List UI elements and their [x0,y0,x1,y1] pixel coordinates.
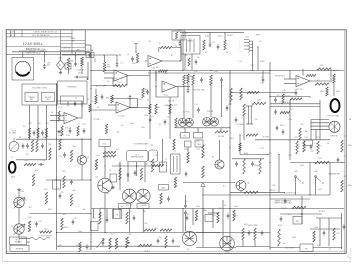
resistor R78 [315,161,329,163]
speaker LS1 body [15,61,30,76]
resistor R90 [99,212,101,224]
svg-text:22u: 22u [116,149,119,151]
svg-text:PINS: PINS [256,35,260,37]
capacitor C26 [22,143,25,148]
capacitor C59b [284,198,287,203]
junction dot 27 [269,208,270,209]
svg-text:TO REVERB TANK: TO REVERB TANK [134,143,149,146]
junction dot 31 [341,162,342,163]
wire bottom bus right [236,246,270,248]
svg-text:R100: R100 [234,206,238,208]
wire B+ rail [91,70,344,72]
svg-text:R23: R23 [151,116,154,118]
svg-text:Q3: Q3 [87,157,89,159]
supply arrow symbol [134,44,137,48]
wire ic3 drop c [136,162,138,176]
wire top joint [90,54,117,56]
wire y214 rail [280,213,322,215]
svg-text:R90: R90 [101,208,104,210]
junction dot 22 [90,213,91,214]
junction dot 14 [56,139,57,140]
svg-text:C42: C42 [311,151,314,153]
svg-text:C41: C41 [269,153,272,155]
wire tone drop1 [95,89,97,96]
resistor R71 [155,104,157,114]
svg-text:ECC83: ECC83 [126,205,132,207]
svg-text:R2: R2 [205,52,207,54]
wire mid x223 drop2 [222,234,224,247]
capacitor C23 [282,129,285,134]
svg-text:R16: R16 [29,123,32,125]
svg-text:R72: R72 [197,141,200,143]
svg-text:V3b: V3b [143,211,146,213]
wire ic3 drop b [127,162,129,182]
svg-text:R99: R99 [219,208,222,210]
junction dot 9 [210,70,211,71]
svg-text:R74a: R74a [254,165,258,167]
junction dot 2 [119,54,120,55]
transistor Q1 arrow [14,198,26,209]
relay box RL1 [99,140,111,147]
wire bridge top [60,52,62,60]
resistor R1 in jack [175,32,177,39]
wire R61 down [81,66,83,74]
title block row line 2 [6,36,72,38]
capacitor C41a [235,161,238,166]
resistor R98 [195,210,197,221]
page bottom edge shadow [2,261,351,263]
potentiometer VR5 body [126,237,129,248]
wire mid bus b [162,139,164,166]
svg-text:VR5: VR5 [128,234,131,236]
svg-text:C10: C10 [144,89,147,91]
svg-text:C32: C32 [39,221,42,223]
ground G7 [57,130,61,133]
svg-text:~ MAINS 240V AC 50Hz: ~ MAINS 240V AC 50Hz [24,48,46,51]
wire x170 vert [169,97,171,139]
wire rb bus3 [313,247,342,249]
wire bottom drop 5 [119,209,121,219]
wire tone bus [91,85,120,87]
svg-text:TIP41: TIP41 [105,193,109,195]
wire spk link 4 [311,128,329,130]
svg-text:0V1: 0V1 [117,132,120,134]
svg-text:OP: OP [309,97,311,99]
wire IC3a in [284,78,296,80]
svg-text:R20: R20 [165,73,168,75]
wire bottom bus 2 [57,245,180,247]
resistor R54 [28,221,30,232]
wire top mid rail [180,31,238,33]
junction dot 25 [202,232,203,233]
wire psu under b [191,54,193,70]
page corner shadow [347,256,351,260]
capacitor C59 [280,216,283,221]
svg-text:CT: CT [109,251,111,253]
svg-text:R31 10R: R31 10R [218,136,225,138]
wire E vert [289,71,291,80]
capacitor C19 [262,77,265,82]
wire psu under a [184,54,186,70]
capacitor C27 [26,143,29,148]
svg-text:LS1: LS1 [21,62,24,64]
resistor R76 [303,141,305,152]
svg-text:SEC 2: SEC 2 [218,36,223,38]
wire jack down [180,46,182,61]
title block right column row 3 [61,46,86,48]
wire Q2 out [18,234,20,238]
wire Q5 up [219,140,221,160]
svg-text:C6: C6 [87,99,89,101]
resistor R49 [160,193,162,204]
svg-text:R106: R106 [292,237,296,239]
svg-text:10R 5W: 10R 5W [269,190,275,192]
svg-text:R47: R47 [301,124,304,126]
svg-text:HT 285V: HT 285V [319,211,326,213]
svg-text:C53: C53 [159,237,162,239]
svg-text:R5: R5 [103,55,105,57]
wire V4 top [185,195,187,204]
resistor R12 [89,104,91,112]
effects panel inner box [61,96,84,104]
svg-text:R97: R97 [167,232,170,234]
svg-text:R76: R76 [305,137,308,139]
diode D1 [209,43,211,47]
title block col line a [10,30,12,37]
svg-text:B1: B1 [223,186,225,188]
wire right vert c [319,100,321,140]
ic3 rounded box 2 [149,150,158,162]
wire right band 3 [270,198,310,200]
potentiometer VR5 wiper [128,242,130,244]
resistor R92 [144,229,156,231]
effects panel box [58,81,88,104]
svg-text:R37: R37 [119,164,122,166]
svg-text:R54: R54 [29,217,32,219]
middle pot box [42,93,55,102]
capacitor C20 [274,97,277,102]
resistor R91 [126,212,128,224]
junction heavy A [87,78,89,80]
svg-text:C59: C59 [288,214,291,216]
svg-text:R13: R13 [59,107,62,109]
tube V1a [178,118,186,126]
capacitor C10b [33,130,36,135]
wire rb vert [341,213,343,249]
svg-text:C45: C45 [327,143,330,145]
wire col x68 [67,101,69,106]
wire R32 stub [243,116,245,140]
capacitor C29 [38,163,43,166]
wire x203 bottom [202,209,204,248]
box bottom d [293,217,302,225]
junction dot 30 [269,162,270,163]
svg-text:SMOOTHING: SMOOTHING [248,225,259,227]
svg-text:C21a: C21a [288,119,292,121]
svg-text:CN1: CN1 [245,37,248,39]
wire x88 drop [87,62,89,79]
footswitch label box 2 [10,245,29,251]
junction dot 13 [90,139,91,140]
wire cap C30 drop [44,52,46,63]
svg-text:R80: R80 [344,176,347,178]
svg-text:R64a: R64a [64,227,68,229]
wire x188 stub [187,148,189,153]
title block outline [6,30,85,55]
resistor R15 [95,95,97,104]
svg-text:R40: R40 [321,65,324,67]
wire Q1 down [18,208,20,224]
title block col line b [14,30,16,37]
tube V5 [220,236,235,251]
capacitor C10c [41,130,44,135]
title block col line d [60,30,62,55]
svg-text:R29: R29 [241,96,244,98]
diode D5 [127,173,129,177]
wire mid y213 [208,212,218,214]
resistor R21a [61,126,63,136]
resistor R74c [243,159,245,174]
svg-text:R98: R98 [197,206,200,208]
svg-text:C40a: C40a [141,127,145,129]
wire IC1a out [128,75,150,77]
wire IC1a in+ [104,72,114,74]
capacitor C15 [220,77,223,82]
svg-text:R80a: R80a [348,185,352,187]
component box right [304,140,313,146]
wire y218 loop [316,217,342,219]
resistor R38 [140,168,142,180]
wire fb left [112,78,114,86]
capacitor C50 [106,217,109,222]
resistor R30 [252,102,266,104]
drawing frame outer [6,30,346,254]
svg-text:R103: R103 [278,225,282,227]
wire V4 up [185,215,187,232]
transformer T2 box [171,154,181,174]
junction dot 15 [29,139,30,140]
wire IC2b out [176,86,190,88]
wire r22 chain [187,83,189,89]
ground G1 [59,71,63,74]
wire bt drop c [202,209,204,233]
resistor R99 [217,212,219,223]
resistor R35 [95,159,97,170]
transformer T3 winding b [250,106,252,124]
wire bottom 247 mid [196,247,236,249]
resistor R25 [183,75,186,85]
svg-text:IC1a: IC1a [117,82,121,84]
svg-text:R41a: R41a [320,91,324,93]
wire B+ rail lower [148,72,270,74]
wire x320 loop [319,218,321,246]
svg-text:R79: R79 [344,136,347,138]
resistor R45 [280,111,290,113]
svg-text:PRESENCE: PRESENCE [67,87,77,89]
cathode resistor box Rk1 [181,133,190,139]
resistor R80 [341,180,343,192]
transistor Q6 [236,181,246,191]
resistor R93 [160,229,172,231]
resistor R65 [40,231,52,233]
resistor R74b [239,143,241,151]
wire fb right [126,76,128,86]
tube V3 base box [119,204,131,209]
junction dot 42 [56,104,57,105]
svg-text:R53a: R53a [20,191,24,193]
wire cap to dot [80,76,89,78]
wire IC4a in2 [50,120,64,122]
resistor R39 [151,159,153,172]
svg-text:R57: R57 [59,135,62,137]
svg-text:R64: R64 [63,214,66,216]
svg-text:R56: R56 [49,144,52,146]
connector CN1 arcs [244,40,250,53]
title block col line f [84,30,86,55]
resistor R70 [149,104,151,114]
svg-text:R19: R19 [139,99,142,101]
junction dot 34 [309,194,310,195]
resistor R100 [233,210,235,221]
wire fbE right [330,69,332,82]
capacitor C4b bars [131,56,134,61]
wire Q4 down [104,193,106,232]
capacitor C57 [248,230,251,235]
connector CN1 pins [250,41,253,51]
junction x279 [278,154,279,155]
box bottom b [113,210,122,219]
capacitor C60 [343,224,346,229]
wire out drop2 [192,85,194,118]
svg-text:100n: 100n [76,245,80,247]
svg-text:R98a: R98a [203,210,207,212]
transistor Q5 [215,160,224,169]
resistor R52 [24,163,36,165]
ic3 rounded box [127,150,149,162]
junction dot 5 [155,86,156,87]
wire IC2a in upper [108,104,116,106]
capacitor C14 [200,77,203,82]
svg-text:R33: R33 [97,155,100,157]
transistor Q3 [77,155,86,164]
svg-text:R6: R6 [119,87,121,89]
svg-text:R63: R63 [73,190,76,192]
speaker LS2 cross [331,121,339,132]
svg-text:R60: R60 [70,61,73,63]
title block title underline [6,45,60,47]
wire q5 bus [183,182,235,184]
title block row line 1 [6,32,72,34]
svg-text:R78a: R78a [300,165,304,167]
capacitor C53 [157,238,160,243]
resistor R13 [58,111,60,121]
svg-text:47n: 47n [47,65,50,67]
capacitor C54 [172,238,175,243]
resistor R34 [103,155,116,157]
tube V4 [182,231,196,245]
capacitor C42 [310,144,313,149]
svg-text:IC 1/2B: IC 1/2B [118,116,125,118]
small box mid [159,185,169,191]
resistor R101 [242,228,244,240]
svg-text:R25 R26 100K: R25 R26 100K [193,90,205,92]
resistor R107 [333,228,335,240]
capacitor C35 [59,193,62,198]
resistor R6 feedback [113,84,127,86]
resistor R2b [188,58,190,66]
resistor R77 [317,141,319,154]
wire left bus a [16,159,46,161]
wire fuse link [62,54,90,56]
resistor R56 [49,148,51,160]
input jack box J1 [172,31,185,40]
wire bias vert x240 [239,134,241,155]
capacitor C4 [179,41,182,46]
wire x279 drop [278,155,280,193]
wire V3a drop [128,209,130,233]
svg-text:C2: C2 [117,55,119,57]
wire IC2a in lower [91,109,116,111]
junction dot 29 [18,241,19,242]
svg-text:C26: C26 [26,154,29,156]
wire Q3 up [81,139,83,156]
wire IC1a in- [104,77,114,79]
resistor R79 [341,140,343,152]
svg-text:MAINS: MAINS [187,40,193,43]
resistor R48 [173,139,175,150]
svg-text:12 AX 30ELL: 12 AX 30ELL [23,42,43,46]
capacitor C66 [323,230,326,235]
junction dot 36 [202,208,203,209]
resistor R50b [174,177,176,188]
resistor R28 [230,88,233,102]
junction dot 3 [145,60,146,61]
capacitor C8 [101,94,104,99]
junction dot 16 [104,165,105,166]
svg-text:Q6: Q6 [247,183,249,185]
capacitor C44 [295,90,298,95]
svg-text:EARTH SOLDER TAG: EARTH SOLDER TAG [275,202,293,205]
wire cath drop2 [197,128,199,133]
svg-text:J2: J2 [165,159,167,161]
ground G6 triangle [201,183,205,187]
resistor R40 [317,68,331,70]
svg-text:REVERB: REVERB [16,249,24,251]
junction dot 33 [269,139,270,140]
svg-text:HT SEC: HT SEC [144,251,151,253]
capacitor C38 [167,196,170,201]
svg-text:0-240: 0-240 [205,36,209,38]
svg-text:SW2: SW2 [294,171,298,173]
wire spk link 3 [311,125,329,127]
output transformer ellipse [331,99,340,112]
fuse F1 element [89,53,91,57]
tube V2b [210,118,219,127]
transformer T2 winding b [176,156,178,172]
transistor Q2 [14,224,24,234]
wire mid bus a [149,71,151,140]
wire right vert b [289,100,291,160]
junction dot 4 [179,60,180,61]
svg-text:R14: R14 [106,98,109,100]
capacitor C24 [134,170,137,175]
svg-text:Q4: Q4 [95,177,97,179]
svg-text:1n: 1n [261,77,263,79]
wire bt drop e [222,200,224,234]
resistor R16 [28,128,30,138]
svg-text:FS1: FS1 [305,248,308,250]
svg-text:R70a: R70a [156,107,160,109]
